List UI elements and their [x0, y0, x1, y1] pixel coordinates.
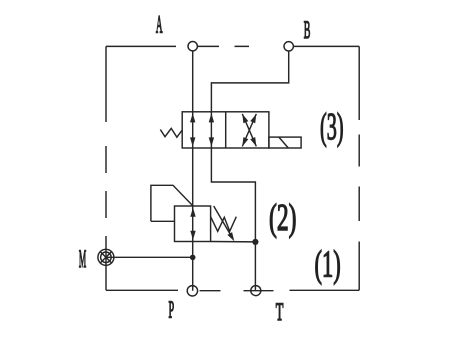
gauge M symbol inner circle: [101, 252, 112, 263]
wire A to P vertical line: [192, 46, 194, 291]
valve V3 solenoid diagonal: [279, 137, 288, 148]
valve V2 adjustment arrow: [214, 206, 232, 237]
valve V2 internal arrows: [190, 208, 195, 240]
wire gauge M line: [106, 256, 193, 258]
gauge M spokes: [100, 252, 111, 263]
valve V3 solenoid box: [269, 137, 301, 148]
svg-text:(2): (2): [269, 196, 296, 238]
svg-text:M: M: [79, 245, 86, 273]
valve V3 crossed arrows in right square: [242, 114, 256, 146]
svg-text:B: B: [304, 17, 311, 45]
valve V2 pilot pentagon: [151, 185, 193, 221]
port T circle: [251, 286, 261, 296]
port B circle: [284, 42, 293, 51]
valve V3 body: [182, 112, 269, 148]
enclosure right border dashed segments: [358, 46, 360, 290]
svg-text:T: T: [276, 298, 284, 326]
valve V3 left path arrows (vertical double arrows): [190, 113, 214, 146]
svg-text:P: P: [168, 297, 174, 323]
port A circle: [188, 42, 197, 51]
junction node on gauge line: [190, 255, 196, 261]
gauge M symbol outer circle: [98, 249, 114, 265]
enclosure bottom border dashed segments: [106, 289, 359, 291]
valve V3 spring (left): [160, 128, 182, 137]
valve V2 bottom line to node: [211, 241, 256, 243]
valve V3 position divider: [225, 112, 227, 148]
enclosure left border dashed segments: [105, 46, 107, 290]
port P circle: [187, 286, 197, 296]
valve V2 spring (right): [211, 217, 237, 232]
svg-text:A: A: [156, 11, 163, 39]
junction node at valve V2 output: [252, 239, 258, 245]
svg-text:(1): (1): [315, 242, 341, 285]
svg-text:(3): (3): [320, 105, 343, 147]
valve V2 body: [175, 206, 211, 242]
enclosure top border dashed segments: [106, 45, 359, 47]
wire valve 3 right path down to node and T: [211, 112, 255, 291]
wire B elbow to valve 3: [211, 46, 288, 112]
